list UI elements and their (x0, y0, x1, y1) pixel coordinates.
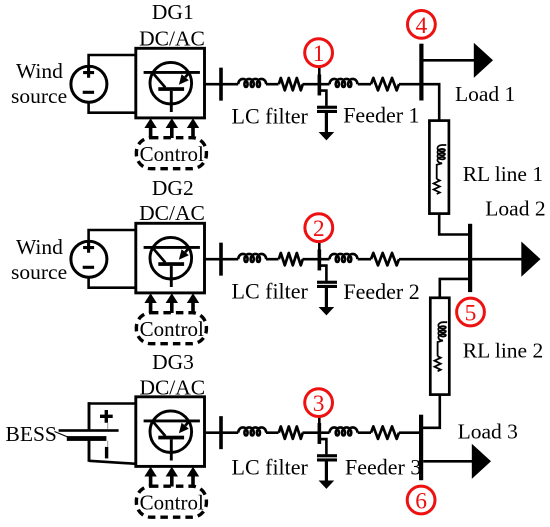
wire feeder3 to bus 6 (399, 431, 421, 434)
svg-text:Load 2: Load 2 (485, 197, 545, 221)
LC filter and feeder 3 components (205, 415, 400, 489)
battery short plate (67, 436, 107, 441)
svg-text:source: source (11, 260, 67, 284)
control block 3 (136, 467, 206, 517)
bus load 2 (468, 224, 472, 292)
battery thin stems (107, 423, 109, 447)
LC filter and feeder 1 components (205, 67, 400, 141)
battery BESS wires (88, 402, 136, 405)
load 1 arrow (424, 59, 475, 62)
wire bus load2 to RL line 2 (440, 279, 470, 298)
battery minus sign (rotated) (105, 447, 108, 459)
svg-text:DG3: DG3 (152, 350, 194, 374)
bus node 6 (419, 415, 423, 481)
svg-text:RL line 1: RL line 1 (463, 162, 543, 186)
svg-text:5: 5 (465, 300, 477, 326)
wire RL line 1 to load2 bus (439, 213, 468, 234)
svg-text:DG1: DG1 (152, 0, 194, 24)
svg-text:Feeder 1: Feeder 1 (343, 102, 419, 127)
svg-text:4: 4 (416, 13, 428, 39)
svg-text:Feeder 2: Feeder 2 (343, 279, 419, 304)
svg-text:2: 2 (313, 216, 325, 242)
node 2 circle (305, 214, 333, 242)
svg-text:DC/AC: DC/AC (139, 26, 205, 50)
battery leader line (55, 432, 70, 438)
converter U3 DC/AC (136, 397, 205, 467)
svg-text:RL line 2: RL line 2 (463, 338, 543, 362)
svg-text:Wind: Wind (16, 59, 63, 83)
node 3 circle (305, 389, 333, 417)
wire feeder1 to bus 4 (399, 83, 421, 86)
svg-text:Load 3: Load 3 (458, 420, 518, 444)
wind source V1 (71, 55, 136, 113)
bus node 4 (419, 44, 423, 101)
RL line 1 box (429, 121, 449, 214)
svg-text:source: source (11, 84, 67, 108)
load 3 arrow (423, 460, 472, 463)
svg-text:6: 6 (415, 488, 427, 514)
svg-text:Feeder 3: Feeder 3 (345, 455, 421, 480)
converter U1 DC/AC (136, 48, 205, 118)
svg-text:DC/AC: DC/AC (139, 201, 205, 225)
wire RL line 2 to bus 6 (421, 394, 440, 428)
svg-text:1: 1 (313, 41, 325, 67)
load 2 arrow head (521, 242, 540, 277)
control block 2 (136, 293, 206, 343)
svg-text:3: 3 (313, 391, 325, 417)
node 5 circle (457, 298, 485, 326)
svg-text:BESS: BESS (6, 422, 57, 446)
LC filter and feeder 2 components (205, 242, 400, 316)
wire bus4 to RL line 1 (421, 84, 439, 120)
node 1 circle (305, 39, 333, 67)
node 6 circle (407, 486, 435, 514)
node 4 circle (408, 11, 436, 39)
battery long plate (59, 429, 119, 432)
svg-text:LC filter: LC filter (232, 279, 309, 304)
converter U2 DC/AC (136, 223, 205, 293)
wire feeder2 to load2 arrow (399, 258, 522, 261)
battery plus sign (100, 410, 113, 423)
control block 1 (136, 118, 206, 168)
svg-text:DG2: DG2 (152, 176, 194, 200)
wind source V2 (71, 230, 136, 288)
svg-text:Load 1: Load 1 (455, 82, 515, 106)
svg-text:LC filter: LC filter (232, 104, 309, 129)
svg-text:Wind: Wind (16, 235, 63, 259)
RL line 2 box (430, 298, 449, 395)
svg-text:LC filter: LC filter (232, 455, 309, 480)
